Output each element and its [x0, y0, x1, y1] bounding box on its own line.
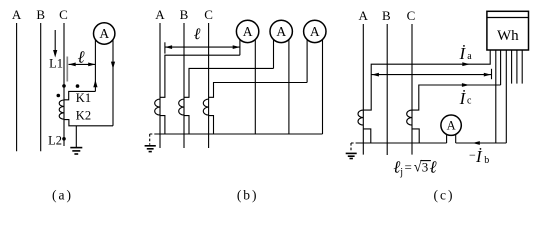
CT b2 coil on line B [179, 99, 184, 115]
CT b1 K2 lead [160, 116, 165, 134]
CT b1 K1 lead [160, 55, 240, 97]
svg-text:(b): (b) [237, 188, 259, 203]
ammeter A1 circle [94, 23, 115, 44]
current arrow up on left wire [93, 80, 97, 87]
dashed earth link (c) [351, 143, 358, 152]
ammeter b1 wires [239, 31, 241, 55]
ammeter b2 wires [273, 31, 275, 68]
Ic current arrow [462, 83, 470, 87]
CT b3 coil on line C [203, 99, 208, 115]
svg-text:A: A [12, 7, 22, 22]
CT b1 coil on line A [155, 99, 160, 115]
wire ammeter right [112, 34, 114, 126]
svg-text:a: a [467, 51, 472, 62]
svg-text:ℓ: ℓ [194, 26, 201, 43]
CT secondary coil on line C [59, 100, 64, 119]
svg-text:C: C [407, 8, 416, 23]
dimension witness bar [66, 57, 68, 82]
wire K2 return [64, 120, 113, 126]
ammeter A circle b3 [304, 20, 326, 42]
svg-text:3: 3 [422, 160, 429, 175]
svg-text:A: A [447, 119, 456, 133]
polarity dot left of line C [57, 94, 61, 98]
svg-text:b: b [484, 155, 489, 166]
-Ib return wire [456, 142, 507, 144]
svg-text:A: A [276, 24, 286, 39]
CT c1 K1 lead + Ia wire [363, 50, 490, 110]
svg-text:Wh: Wh [497, 28, 519, 44]
wire K1 to ammeter [64, 91, 95, 99]
CT c2 coil on line C [407, 110, 412, 125]
ammeter A circle b1 [236, 20, 258, 42]
primary current arrow [54, 30, 56, 51]
return bus (b) [155, 133, 323, 135]
phase line B [183, 23, 185, 148]
current arrow down on right wire [111, 62, 115, 69]
CT b3 K2 lead [209, 116, 214, 134]
phase line C [208, 23, 210, 148]
svg-text:(c): (c) [434, 188, 455, 203]
radical overbar [420, 160, 431, 162]
svg-text:j: j [399, 167, 403, 178]
svg-text:=: = [405, 160, 412, 175]
CT c1 K2 lead [363, 129, 371, 143]
Wh terminal lead 1 (return a) [495, 50, 497, 143]
svg-text:İ: İ [459, 44, 467, 63]
svg-text:ℓ: ℓ [430, 158, 437, 177]
ammeter b3 wires [306, 31, 308, 82]
svg-text:B: B [180, 7, 189, 22]
svg-text:K2: K2 [76, 109, 91, 123]
svg-text:B: B [382, 8, 391, 23]
phase line A [362, 24, 364, 155]
svg-text:−: − [469, 148, 476, 162]
svg-text:A: A [99, 26, 109, 41]
svg-text:L1: L1 [49, 57, 63, 71]
dimension line l [69, 63, 96, 65]
CT b3 K1 lead [209, 83, 308, 98]
phase line C [63, 23, 65, 146]
dashed earth link (b) [150, 134, 155, 145]
polarity dot primary on line C [62, 84, 66, 88]
phase line B [386, 24, 388, 155]
dimension witness tick (c) [491, 69, 493, 79]
dimension line l [165, 46, 240, 48]
svg-text:B: B [36, 7, 45, 22]
phase line B [40, 23, 42, 151]
dimension witness tick [164, 42, 166, 53]
Wh terminal lead 6 [521, 50, 523, 84]
svg-text:A: A [359, 8, 369, 23]
dimension line lj [371, 74, 491, 76]
ground (a) [75, 126, 77, 148]
svg-text:A: A [310, 24, 320, 39]
Wh terminal lead 4 [511, 50, 513, 84]
CT b2 K1 lead [184, 68, 274, 97]
Wh terminal lead 3 (return c) [505, 50, 507, 143]
phase line A [159, 23, 161, 148]
CT c2 K1 lead + Ic wire [412, 85, 501, 110]
svg-text:A: A [243, 24, 253, 39]
ammeter A circle b2 [270, 20, 292, 42]
Ia current arrow [462, 62, 470, 66]
Wh meter box [487, 11, 529, 50]
terminal dot L2 [62, 137, 66, 141]
ground (b) [145, 145, 156, 147]
svg-text:L2: L2 [48, 134, 62, 148]
Wh terminal lead 5 [516, 50, 518, 84]
polarity dot secondary [76, 84, 80, 88]
CT c2 K2 lead [412, 129, 419, 143]
CT b2 K2 lead [184, 116, 189, 134]
phase line A [16, 23, 18, 151]
svg-text:İ: İ [475, 147, 483, 166]
Wh terminal lead 2 (Ic in) [500, 50, 502, 85]
svg-text:K1: K1 [76, 91, 91, 105]
CT c1 coil on line A [358, 110, 363, 125]
svg-text:C: C [204, 7, 213, 22]
svg-text:√: √ [414, 160, 422, 176]
svg-text:(a): (a) [52, 188, 73, 203]
phase line C [411, 24, 413, 155]
svg-text:İ: İ [459, 89, 467, 108]
svg-text:ℓ: ℓ [78, 47, 85, 66]
ammeter c wires [446, 125, 448, 143]
svg-text:c: c [467, 95, 472, 106]
wire ammeter left [94, 34, 96, 92]
svg-text:A: A [155, 7, 165, 22]
svg-text:C: C [59, 7, 68, 22]
return bus (c) [358, 142, 447, 144]
ground (c) [346, 152, 357, 154]
svg-text:ℓ: ℓ [393, 158, 400, 177]
ammeter A circle (c) [441, 115, 461, 135]
